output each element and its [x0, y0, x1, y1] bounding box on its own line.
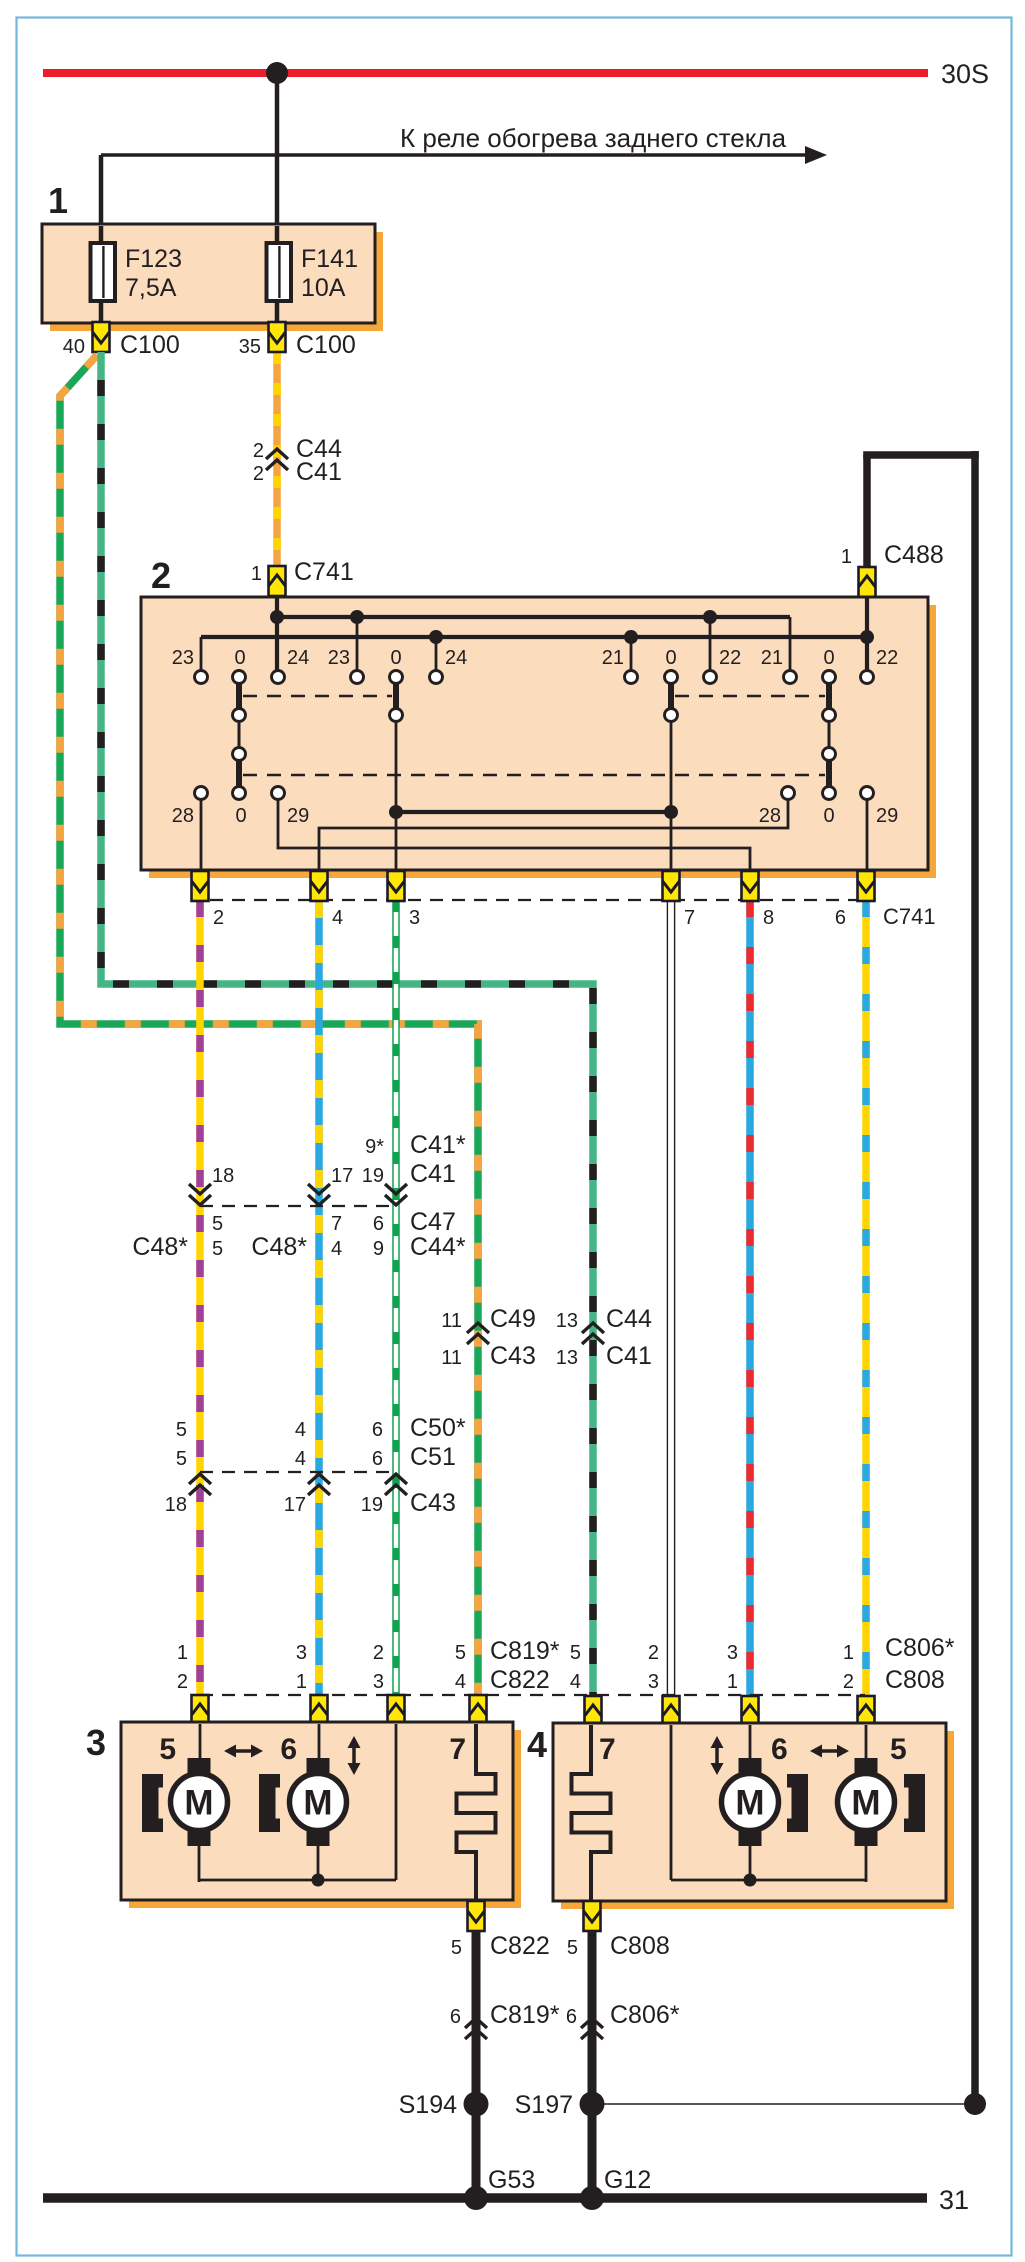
- wire 30S power bus (red): [43, 59, 989, 89]
- svg-text:28: 28: [172, 805, 194, 827]
- connector C822 pin 5 (below box 3): [451, 1901, 550, 1960]
- splice row A dashed link: [200, 1205, 396, 1207]
- wire pin to motor 5 box 4: [865, 1725, 868, 1760]
- bus 1 inside box 2 (y617): [277, 617, 790, 671]
- svg-text:3: 3: [648, 1671, 659, 1693]
- svg-text:30S: 30S: [941, 59, 989, 89]
- arrow vertical (motor 6 box 3): [348, 1736, 361, 1775]
- bus 2 taps: [436, 637, 631, 671]
- svg-text:35: 35: [239, 336, 261, 358]
- svg-text:6: 6: [280, 1733, 297, 1766]
- svg-text:4: 4: [570, 1671, 581, 1693]
- svg-text:1: 1: [48, 180, 68, 221]
- switch block 2: [141, 597, 936, 878]
- label 7 (heater resistor box 3): [449, 1733, 466, 1766]
- mirror actuator box 4: [553, 1723, 954, 1909]
- connector C808 pin 5 (below box 4): [567, 1901, 670, 1960]
- svg-text:13: 13: [556, 1347, 578, 1369]
- svg-text:9: 9: [373, 1238, 384, 1260]
- junction G53: [464, 2166, 535, 2210]
- svg-text:17: 17: [331, 1165, 353, 1187]
- svg-text:C806*: C806*: [610, 2001, 680, 2029]
- wire fuse F141 to connector: [275, 302, 280, 324]
- label К реле обогрева заднего стекла: [400, 123, 787, 153]
- svg-text:5: 5: [212, 1238, 223, 1260]
- svg-text:3: 3: [373, 1671, 384, 1693]
- wire black (C488 to ground splice, right side): [863, 451, 979, 2105]
- wire green-black (pin 40 C100 to heater resistor box 4): [101, 352, 593, 1697]
- connector C808 pin 4 (resistor box 4): [570, 1642, 602, 1726]
- wire pin 7 to connector: [670, 812, 673, 871]
- switch contact B (x396): [390, 671, 403, 813]
- svg-text:C808: C808: [885, 1666, 945, 1694]
- svg-text:21: 21: [761, 647, 783, 669]
- svg-text:C43: C43: [490, 1342, 536, 1370]
- connector C808 pin 2 (motor 5 box 4): [843, 1634, 955, 1726]
- svg-text:11: 11: [441, 1347, 462, 1369]
- svg-text:2: 2: [253, 463, 264, 485]
- connector C808 pin 1 (motor 6 box 4): [727, 1642, 759, 1726]
- svg-text:24: 24: [445, 647, 467, 669]
- svg-text:23: 23: [172, 647, 194, 669]
- junction dots bus 2: [429, 630, 874, 644]
- svg-text:19: 19: [361, 1494, 383, 1516]
- wire orange-yellow (pin 35 C100 to C741): [273, 352, 281, 567]
- wire C488 pin into box 2: [865, 597, 869, 671]
- svg-text:6: 6: [566, 2006, 577, 2028]
- svg-text:C488: C488: [884, 541, 944, 569]
- svg-text:17: 17: [284, 1494, 306, 1516]
- svg-text:C41: C41: [296, 458, 342, 486]
- splice 6 C819* on left ground wire: [450, 2001, 560, 2039]
- svg-text:1: 1: [251, 563, 262, 585]
- junction dots (y812): [389, 805, 678, 819]
- svg-text:24: 24: [287, 647, 309, 669]
- svg-text:К реле обогрева заднего стекла: К реле обогрева заднего стекла: [400, 123, 787, 153]
- svg-text:4: 4: [331, 1238, 342, 1260]
- svg-text:M: M: [735, 1784, 764, 1823]
- svg-text:5: 5: [212, 1213, 223, 1235]
- splice 18/5 on purple-yellow wire (C48*): [132, 1165, 234, 1261]
- connector C741 pin 7: [663, 871, 696, 929]
- bracket motor 6 box 4: [787, 1774, 808, 1832]
- svg-text:C43: C43: [410, 1489, 456, 1517]
- svg-text:3: 3: [296, 1642, 307, 1664]
- fuse F123: [91, 226, 182, 302]
- svg-text:C100: C100: [120, 331, 180, 359]
- svg-text:2: 2: [177, 1671, 188, 1693]
- connector C741 pin 6: [835, 871, 936, 929]
- pin labels top row box 2: [172, 647, 899, 669]
- svg-text:40: 40: [63, 336, 85, 358]
- wire pin 29a to connector 8: [278, 798, 750, 871]
- svg-text:4: 4: [295, 1419, 306, 1441]
- label 3 (mirror actuator left): [86, 1722, 106, 1763]
- svg-text:C48*: C48*: [132, 1233, 188, 1261]
- wire C741 pin into box 2: [275, 597, 279, 671]
- svg-text:5: 5: [159, 1733, 176, 1766]
- svg-text:C49: C49: [490, 1305, 536, 1333]
- svg-text:G53: G53: [488, 2166, 535, 2194]
- wire purple-yellow (pin 2 C741 to motor 5 box 3): [196, 900, 204, 1697]
- connector C741 pin 2: [192, 871, 225, 929]
- connector C100 pin 40: [63, 322, 180, 359]
- wire yellow-blue (pin 4 C741 to motor 6 box 3): [315, 900, 323, 1697]
- connector C488 pin 1: [841, 541, 944, 597]
- svg-text:5: 5: [176, 1419, 187, 1441]
- wire pin 29b to connector 6: [866, 798, 869, 871]
- svg-text:C741: C741: [294, 558, 354, 586]
- svg-text:0: 0: [234, 647, 245, 669]
- svg-text:C50*: C50*: [410, 1414, 466, 1442]
- svg-text:7: 7: [684, 907, 695, 929]
- svg-text:C819*: C819*: [490, 1637, 560, 1665]
- svg-text:7,5A: 7,5A: [125, 274, 177, 302]
- svg-text:2: 2: [213, 907, 224, 929]
- splice 4/17 on yellow-blue wire: [284, 1419, 330, 1516]
- splice 5/18 on purple-yellow wire: [165, 1419, 211, 1516]
- svg-text:1: 1: [843, 1642, 854, 1664]
- svg-text:29: 29: [287, 805, 309, 827]
- svg-text:8: 8: [763, 907, 774, 929]
- svg-text:22: 22: [719, 647, 741, 669]
- junction dot common box 3: [312, 1874, 325, 1887]
- svg-text:6: 6: [450, 2006, 461, 2028]
- arrow horizontal (motor 5 box 3): [224, 1745, 263, 1758]
- svg-text:0: 0: [390, 647, 401, 669]
- svg-text:0: 0: [665, 647, 676, 669]
- heater resistor box 4: [572, 1725, 611, 1902]
- svg-text:19: 19: [362, 1165, 384, 1187]
- svg-text:M: M: [184, 1784, 213, 1823]
- wire motor bottoms to common box 4: [671, 1845, 866, 1882]
- svg-text:21: 21: [602, 647, 624, 669]
- svg-text:1: 1: [841, 546, 852, 568]
- svg-text:C822: C822: [490, 1932, 550, 1960]
- connector C822 pin 3 (box 3): [373, 1642, 405, 1725]
- svg-text:C100: C100: [296, 331, 356, 359]
- svg-text:2: 2: [253, 440, 264, 462]
- svg-text:2: 2: [843, 1671, 854, 1693]
- svg-text:S194: S194: [399, 2091, 457, 2119]
- pin circles bottom row box 2: [195, 787, 874, 800]
- svg-text:1: 1: [296, 1671, 307, 1693]
- junction dot common box 4: [744, 1874, 757, 1887]
- switch contact chain A (x239): [233, 671, 246, 800]
- connector row dashed line box 3: [200, 1694, 865, 1696]
- svg-text:2: 2: [373, 1642, 384, 1664]
- svg-text:1: 1: [177, 1642, 188, 1664]
- svg-text:C44*: C44*: [410, 1233, 466, 1261]
- svg-text:18: 18: [212, 1165, 234, 1187]
- svg-text:0: 0: [823, 805, 834, 827]
- pin labels bottom row box 2: [172, 805, 899, 827]
- wire pin 3 to connector: [395, 812, 398, 871]
- svg-text:0: 0: [823, 647, 834, 669]
- fuse box 1: [42, 224, 383, 331]
- wire yellow-blue (pin 6 C741 to motor 5 box 4): [862, 900, 870, 1697]
- svg-text:G12: G12: [604, 2166, 651, 2194]
- junction G12: [580, 2166, 651, 2210]
- svg-text:6: 6: [835, 907, 846, 929]
- wire white (pin 7 C741 to box 4): [667, 900, 676, 1697]
- fuse F141: [267, 226, 358, 302]
- bus 1 taps: [357, 617, 710, 671]
- svg-text:C41: C41: [410, 1160, 456, 1188]
- wire blue-red (pin 8 C741 to motor 6 box 4): [746, 900, 754, 1697]
- svg-text:11: 11: [441, 1310, 462, 1332]
- svg-text:7: 7: [599, 1733, 616, 1766]
- motor M5 box 3: [171, 1758, 228, 1846]
- svg-text:22: 22: [876, 647, 898, 669]
- bracket motor 5 box 4: [904, 1774, 925, 1832]
- wire black C808 to ground: [588, 1931, 597, 2198]
- splice 17/7 on yellow-blue wire (C48*): [251, 1165, 353, 1261]
- arrow horizontal (motor 6-5 box 4): [810, 1745, 849, 1758]
- svg-text:C822: C822: [490, 1666, 550, 1694]
- label 4 (mirror actuator right): [527, 1724, 547, 1765]
- wire ground bus 31: [43, 2185, 969, 2215]
- svg-text:7: 7: [331, 1213, 342, 1235]
- junction on 30S bus: [266, 62, 288, 84]
- label 2 (switch block): [151, 555, 171, 596]
- svg-text:5: 5: [570, 1642, 581, 1664]
- splice 6 C806* on right ground wire: [566, 2001, 680, 2039]
- svg-text:0: 0: [235, 805, 246, 827]
- wire node between switches B and C: [396, 810, 671, 814]
- junction dots bus 1: [270, 610, 717, 624]
- svg-text:9*: 9*: [365, 1136, 384, 1158]
- node S197: [515, 2091, 605, 2119]
- svg-text:10A: 10A: [301, 274, 346, 302]
- wire pin to common box 4: [670, 1725, 673, 1880]
- svg-text:4: 4: [455, 1671, 466, 1693]
- bracket motor 6 box 3: [259, 1774, 280, 1832]
- splice 13/13 C44/C41 on green-black wire: [556, 1305, 652, 1370]
- svg-text:6: 6: [771, 1733, 788, 1766]
- junction dot right-side wire: [964, 2093, 986, 2115]
- label 7 (heater resistor box 4): [599, 1733, 616, 1766]
- svg-text:13: 13: [556, 1310, 578, 1332]
- label 5 (motor horizontal box 3): [159, 1733, 176, 1766]
- wire black C822 to ground: [472, 1931, 481, 2198]
- node S194: [399, 2091, 489, 2119]
- wire pin 28a to connector 2: [200, 798, 203, 871]
- mechanical link dashes upper: [243, 695, 825, 698]
- svg-text:29: 29: [876, 805, 898, 827]
- wire pin to common box 3: [395, 1724, 398, 1880]
- label 1 (fuse box): [48, 180, 68, 221]
- wire 30S bus to fuse F141: [275, 73, 280, 241]
- svg-text:6: 6: [373, 1213, 384, 1235]
- splice 19/6 on green-white wire (C47/C44*): [362, 1131, 466, 1261]
- svg-text:C41: C41: [606, 1342, 652, 1370]
- svg-text:3: 3: [409, 907, 420, 929]
- wire pin 28b to connector 4: [319, 798, 788, 871]
- svg-text:C51: C51: [410, 1443, 456, 1471]
- svg-text:3: 3: [86, 1722, 106, 1763]
- svg-text:C48*: C48*: [251, 1233, 307, 1261]
- svg-text:5: 5: [176, 1448, 187, 1470]
- connector C741 pin 1 (top of box 2): [251, 558, 354, 596]
- svg-text:5: 5: [890, 1733, 907, 1766]
- switch contact chain D (x829): [823, 671, 836, 800]
- splice 6/19 on green-white wire (C50*/C51/C43): [361, 1414, 466, 1517]
- svg-text:4: 4: [527, 1724, 547, 1765]
- motor M5 box 4: [838, 1758, 895, 1846]
- connector C741 pin 4: [311, 871, 344, 929]
- heater resistor box 3: [457, 1724, 496, 1901]
- svg-text:S197: S197: [515, 2091, 573, 2119]
- wire S197 to right-side wire: [592, 2103, 975, 2105]
- svg-text:C741: C741: [883, 904, 936, 929]
- mechanical link dashes lower: [243, 774, 825, 777]
- wire fuse F123 to connector: [99, 302, 104, 324]
- label 6 (motor vertical box 3): [280, 1733, 297, 1766]
- splice connector C44/C41 (pin 2): [253, 435, 342, 486]
- svg-text:7: 7: [449, 1733, 466, 1766]
- label 5 (motor horizontal box 4): [890, 1733, 907, 1766]
- motor M6 box 4: [722, 1758, 779, 1846]
- svg-text:23: 23: [328, 647, 350, 669]
- svg-text:M: M: [303, 1784, 332, 1823]
- svg-text:2: 2: [648, 1642, 659, 1664]
- svg-text:4: 4: [332, 907, 343, 929]
- splice row C dashed link: [200, 1471, 396, 1473]
- svg-text:C806*: C806*: [885, 1634, 955, 1662]
- connector row dashed line C741: [210, 899, 857, 901]
- svg-text:C819*: C819*: [490, 2001, 560, 2029]
- svg-text:28: 28: [759, 805, 781, 827]
- bus 2 inside box 2 (y637): [201, 637, 867, 671]
- splice 11/11 C49/C43 on green-orange wire: [441, 1305, 536, 1370]
- wire pin to motor 6 box 4: [749, 1725, 752, 1760]
- svg-text:1: 1: [727, 1671, 738, 1693]
- svg-text:31: 31: [939, 2185, 969, 2215]
- svg-text:F141: F141: [301, 245, 358, 273]
- svg-text:C44: C44: [606, 1305, 652, 1333]
- wire motor bottoms to common box 3: [199, 1845, 396, 1882]
- wire pin to motor 5 box 3: [199, 1724, 202, 1760]
- svg-text:5: 5: [451, 1937, 462, 1959]
- wire pin to motor 6 box 3: [318, 1724, 321, 1760]
- wire to fuse F123 and rear window defogger relay: [101, 146, 827, 241]
- svg-text:C808: C808: [610, 1932, 670, 1960]
- svg-text:2: 2: [151, 555, 171, 596]
- wire green-white (pin 3 C741 to box 3): [392, 900, 400, 1697]
- connector C822 pin 1 (motor 6 box 3): [296, 1642, 328, 1725]
- svg-text:18: 18: [165, 1494, 187, 1516]
- arrow vertical (motor 6 box 4): [711, 1736, 724, 1775]
- svg-text:5: 5: [455, 1642, 466, 1664]
- svg-text:5: 5: [567, 1937, 578, 1959]
- svg-text:M: M: [851, 1784, 880, 1823]
- svg-text:F123: F123: [125, 245, 182, 273]
- connector C822 pin 2 (motor 5 box 3): [177, 1642, 209, 1725]
- svg-text:4: 4: [295, 1448, 306, 1470]
- svg-text:C41*: C41*: [410, 1131, 466, 1159]
- svg-text:6: 6: [372, 1448, 383, 1470]
- pin circles top row box 2: [195, 671, 874, 684]
- connector C100 pin 35: [239, 322, 356, 359]
- wire green-orange (pin 40 C100 to heater resistor box 3): [60, 355, 478, 1697]
- svg-text:6: 6: [372, 1419, 383, 1441]
- connector C822 pin 4 (resistor box 3): [455, 1637, 560, 1725]
- switch contact C (x671): [665, 671, 678, 813]
- motor M6 box 3: [290, 1758, 347, 1846]
- label 6 (motor vertical box 4): [771, 1733, 788, 1766]
- connector C741 pin 3: [388, 871, 421, 929]
- svg-text:3: 3: [727, 1642, 738, 1664]
- mirror actuator box 3: [121, 1722, 521, 1908]
- connector C741 pin 8: [742, 871, 775, 929]
- svg-text:C47: C47: [410, 1208, 456, 1236]
- connector C808 pin 3 (box 4): [648, 1642, 680, 1726]
- bracket motor 5 box 3: [142, 1774, 163, 1832]
